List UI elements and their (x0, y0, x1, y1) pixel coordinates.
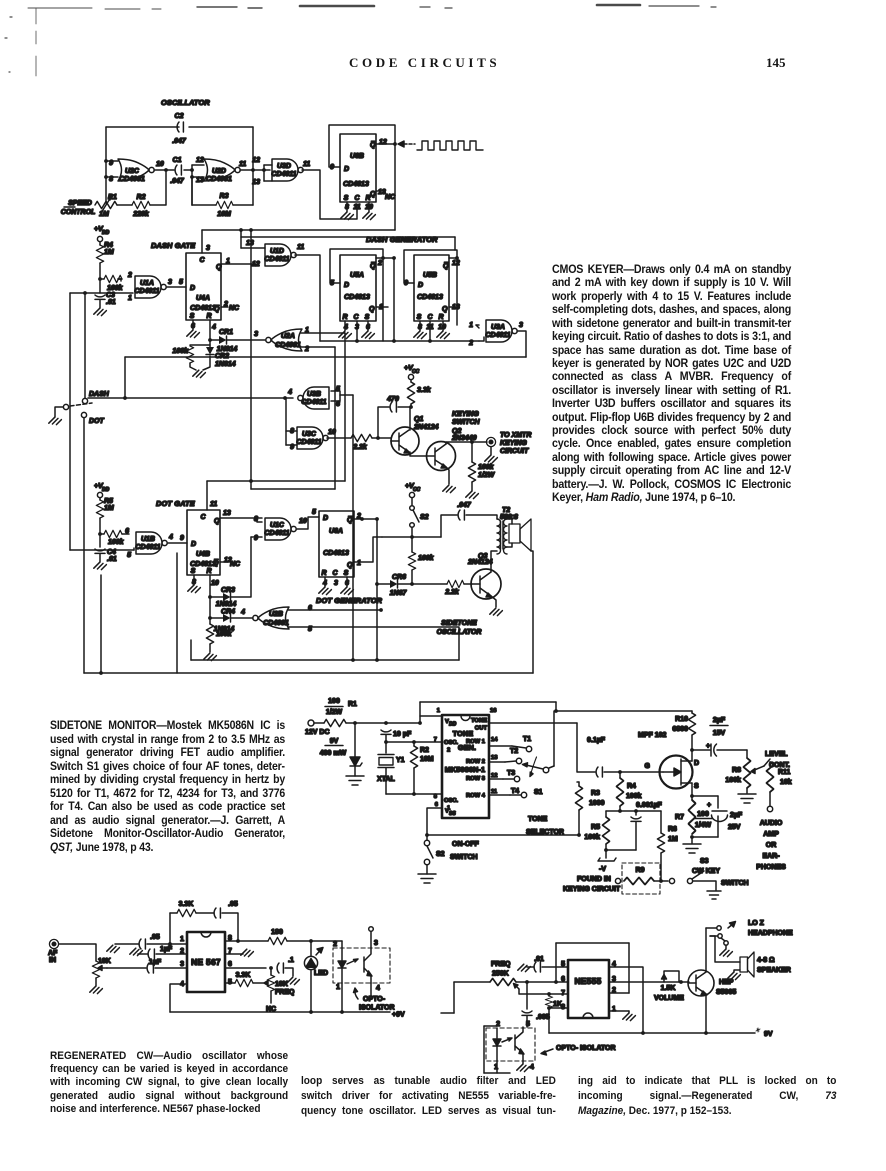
svg-text:PHONES: PHONES (756, 864, 786, 871)
svg-text:CD4013: CD4013 (190, 305, 216, 312)
transistor MPF102 JFET (660, 756, 693, 789)
svg-text:AMP: AMP (763, 831, 779, 838)
svg-text:OUT: OUT (475, 726, 488, 732)
svg-text:CD4013: CD4013 (323, 550, 349, 557)
svg-text:10K: 10K (275, 981, 288, 988)
svg-text:C: C (332, 570, 338, 577)
wire to 1uF pin2 (138, 953, 148, 955)
resistor R8 100k level pot (743, 758, 750, 788)
wire pin1 stub (420, 715, 442, 717)
svg-text:NE555: NE555 (574, 976, 601, 986)
junction (104, 159, 108, 163)
svg-text:500:8: 500:8 (500, 514, 518, 521)
svg-text:S1: S1 (534, 789, 543, 796)
svg-text:1: 1 (336, 984, 340, 991)
text block REGENERATED CW col 3 (578, 1074, 836, 1120)
transformer T2 500:8 (497, 507, 518, 554)
svg-text:CD4011: CD4011 (485, 332, 510, 339)
wire R11 down (769, 792, 771, 806)
svg-text:U3D: U3D (277, 163, 291, 170)
svg-text:100k: 100k (418, 555, 435, 562)
ground zener (346, 776, 364, 785)
wire node to 100k (411, 537, 413, 552)
svg-text:9V: 9V (330, 738, 339, 745)
svg-text:DD: DD (102, 487, 110, 493)
wire U5A Qbar out (376, 257, 383, 259)
wire source node (692, 795, 718, 797)
potentiometer FREQ 250K (490, 978, 519, 989)
wire U5A D loop (330, 249, 383, 283)
junction (554, 709, 558, 713)
svg-text:Q1: Q1 (414, 416, 423, 423)
wire R3 left riser (191, 177, 193, 205)
wire dash clock line (320, 340, 479, 342)
resistor 100k dot gate (206, 624, 213, 644)
svg-text:U2B: U2B (269, 611, 283, 618)
junction (425, 833, 429, 837)
junction (604, 848, 608, 852)
wire R6 bottom (660, 853, 662, 881)
ground R7 (683, 844, 701, 853)
svg-text:3.3K: 3.3K (236, 972, 251, 979)
svg-text:3: 3 (254, 331, 258, 338)
wire U3A pin1 stub (476, 324, 479, 326)
resistor R5 100k (602, 817, 609, 844)
wire stub (133, 548, 135, 550)
svg-text:CIRCUIT: CIRCUIT (500, 448, 529, 455)
resistor R1 1M speed control pot (95, 194, 117, 218)
ground (204, 653, 217, 660)
wire rotor link (549, 766, 554, 768)
wire R7 bottom (691, 837, 693, 843)
svg-text:4-8 Ω: 4-8 Ω (757, 957, 775, 964)
wire R4 to node (99, 263, 101, 279)
junction (262, 168, 266, 172)
capacitor C4 .01 (95, 549, 105, 553)
svg-text:0.001µF: 0.001µF (636, 802, 663, 809)
text block SIDETONE MONITOR (50, 719, 285, 854)
svg-text:12: 12 (452, 260, 460, 267)
svg-text:LO Z: LO Z (748, 920, 765, 927)
scan mark vertical fold line left (35, 8, 37, 76)
wire CR1 to U2A output (227, 339, 265, 341)
svg-text:4: 4 (530, 1064, 534, 1071)
svg-text:R2: R2 (137, 194, 146, 201)
svg-text:ON-OFF: ON-OFF (452, 841, 480, 848)
svg-text:KEYING: KEYING (500, 440, 527, 447)
wire cap bottom (635, 822, 637, 850)
wire U6A R to ground (324, 577, 326, 587)
wire U6A Q to enable (354, 537, 382, 562)
svg-text:3.3K: 3.3K (179, 901, 194, 908)
wire enable to node (382, 536, 412, 538)
svg-text:U1A: U1A (140, 280, 154, 287)
IC MK5086N-1 tone generator (442, 715, 489, 818)
svg-text:8: 8 (109, 176, 113, 183)
op-amp U2B (NOR gate U2B CD4001) (253, 607, 289, 629)
svg-text:U1C: U1C (270, 522, 285, 529)
ground S2 (418, 874, 436, 883)
diode CR1 1N914 (219, 336, 227, 344)
wire U4A R pin down (209, 320, 211, 340)
junction (641, 1031, 645, 1035)
wire Q3 collector to T2 (491, 551, 497, 572)
wire U5A C clock (356, 321, 358, 341)
svg-text:C: C (200, 514, 206, 521)
transistor opto NPN (364, 948, 372, 983)
svg-text:10: 10 (211, 580, 219, 587)
svg-text:CD4001: CD4001 (263, 620, 289, 627)
svg-text:Q̅: Q̅ (370, 141, 376, 149)
svg-text:12: 12 (196, 157, 204, 164)
wire inner rail corner (190, 640, 192, 660)
junction (384, 721, 388, 725)
svg-text:5: 5 (127, 552, 131, 559)
junction (659, 879, 663, 883)
svg-text:R1: R1 (348, 701, 357, 708)
wire to R8 (746, 750, 748, 758)
headphone jack (710, 922, 736, 950)
svg-text:HEP: HEP (719, 979, 734, 986)
svg-text:D: D (344, 282, 349, 289)
svg-text:CD4011: CD4011 (271, 171, 296, 178)
svg-text:S: S (344, 195, 349, 202)
wire collector up (705, 928, 707, 972)
wire C4 to ground (99, 554, 101, 562)
wire U2C pin9 stub (106, 160, 118, 162)
wire pot top (270, 968, 272, 971)
svg-text:3: 3 (206, 245, 210, 252)
svg-text:R3: R3 (591, 790, 600, 797)
wire U3B-U3C link (285, 398, 287, 445)
svg-text:400 mW: 400 mW (320, 750, 347, 757)
junction (208, 616, 212, 620)
wire speed control dash (64, 206, 75, 208)
svg-text:8: 8 (434, 794, 438, 800)
svg-text:CD4011: CD4011 (264, 530, 289, 537)
svg-text:.047: .047 (170, 178, 185, 185)
wire U3D pin12 stub (264, 164, 272, 166)
flip-flop U5B CD4013 (414, 255, 449, 321)
svg-text:S3: S3 (700, 858, 709, 865)
wire 1K to rail (548, 1008, 550, 1033)
svg-text:R9: R9 (636, 867, 645, 874)
wire VDD rail (420, 701, 556, 703)
wire U4B Qbar NC stub (220, 561, 228, 563)
switch dash contact (82, 398, 87, 403)
ground (94, 562, 107, 569)
op-amp U1D (NAND gate U1D CD4011) (265, 244, 296, 266)
svg-text:100k: 100k (725, 777, 741, 784)
wire 180 right (287, 940, 342, 942)
op-amp U1A (NAND gate U1A CD4011) (135, 276, 166, 298)
wire long dash line (125, 356, 526, 358)
svg-text:OSC.: OSC. (444, 798, 459, 804)
svg-text:100: 100 (697, 811, 709, 818)
junction (375, 517, 379, 521)
svg-text:VOLUME: VOLUME (654, 995, 684, 1002)
svg-text:1: 1 (226, 258, 230, 265)
wire U6A Qbar down to CR6 (376, 519, 378, 584)
svg-text:250K: 250K (492, 971, 509, 978)
wire tone out (489, 722, 577, 724)
wire R3 top link (578, 782, 580, 786)
wire U1D output down (295, 255, 320, 341)
resistor 3.3k (407, 382, 414, 404)
ground (187, 330, 200, 337)
svg-text:.1: .1 (288, 957, 294, 964)
svg-text:DOT GATE: DOT GATE (156, 499, 196, 508)
svg-text:Q: Q (442, 306, 448, 313)
wire R10 to drain (691, 735, 693, 750)
junction (269, 966, 273, 970)
svg-text:OSC.: OSC. (444, 740, 459, 746)
op-amp U3C (NAND gate U3C CD4011) (297, 427, 328, 449)
wire to CR6 (379, 583, 390, 585)
wire left riser (453, 982, 455, 1013)
wire pin4 down (170, 984, 187, 1012)
svg-text:U2A: U2A (281, 333, 295, 340)
switch S2 contact top (410, 506, 415, 511)
ground (414, 331, 427, 338)
svg-text:U4B: U4B (196, 551, 210, 558)
svg-text:10: 10 (328, 429, 336, 436)
wire VDD to R4 (99, 242, 101, 245)
svg-text:CR3: CR3 (221, 587, 235, 594)
svg-text:R5: R5 (591, 824, 600, 831)
wire U1C pin8 riser (257, 517, 262, 519)
svg-text:1µF: 1µF (160, 946, 173, 953)
opto-isolator U2 dashed box (333, 948, 390, 983)
svg-text:7: 7 (434, 737, 437, 743)
resistor R9 in dashed box (615, 863, 660, 894)
arrow opto2 coupling (502, 1038, 512, 1042)
svg-text:U5B: U5B (423, 272, 437, 279)
svg-text:1µF: 1µF (149, 959, 162, 966)
wire dash vertical (84, 293, 86, 398)
diode opto LED (338, 948, 346, 983)
junction (309, 1010, 313, 1014)
svg-text:KEYING: KEYING (452, 411, 479, 418)
resistor R1 100 1/2W (324, 698, 357, 727)
wire U6B R pin to ground (368, 202, 370, 212)
wire R5 top (605, 811, 607, 817)
wire U2A pin2 (301, 346, 335, 348)
svg-text:NC: NC (266, 1006, 276, 1013)
svg-text:12: 12 (491, 773, 497, 779)
wire U6B Q-bar output pin 12 (376, 143, 395, 145)
wire 100k to ground (209, 644, 211, 652)
junction (392, 256, 396, 260)
wire U5B S to ground (419, 321, 421, 331)
switch S2 on-off (424, 835, 444, 874)
terminal +VDD dot (97, 492, 102, 497)
svg-text:R6: R6 (668, 826, 677, 833)
wire CR4 to U2B output (231, 617, 253, 619)
resistor 3.3K freq (235, 979, 253, 986)
terminal audio out (767, 806, 772, 811)
svg-text:6: 6 (435, 802, 439, 808)
diode zener 9V (350, 723, 362, 776)
junction (236, 939, 240, 943)
svg-text:4: 4 (287, 389, 292, 396)
junction (618, 770, 622, 774)
resistor R6 1M (657, 833, 664, 853)
capacitor .005 (522, 1011, 532, 1015)
resistor R3 10M (216, 201, 233, 208)
svg-text:1N914: 1N914 (215, 361, 236, 368)
wire opto pin2 (341, 941, 343, 948)
terminal 12VDC input (308, 720, 314, 726)
svg-text:R: R (206, 568, 211, 575)
junction (409, 405, 413, 409)
svg-text:CD4011: CD4011 (301, 399, 326, 406)
svg-text:.047: .047 (457, 502, 472, 509)
wire node to 2.2k (412, 583, 447, 585)
diode CR3 1N914 (223, 593, 231, 601)
svg-text:11: 11 (210, 501, 217, 508)
wire U5A Q stub (376, 306, 388, 308)
ground opto2 (517, 1064, 530, 1071)
svg-text:13: 13 (223, 510, 231, 517)
opto-isolator U3 dashed box (486, 1028, 535, 1061)
junction (375, 658, 379, 662)
wire bias bus (606, 810, 661, 812)
wire osc2 line (386, 741, 442, 743)
svg-text:R: R (438, 314, 443, 321)
ground (437, 331, 450, 338)
svg-text:Q̅: Q̅ (443, 262, 449, 270)
wire U6A Qbar out (354, 518, 377, 520)
svg-text:R8: R8 (732, 767, 741, 774)
junction (83, 291, 87, 295)
junction (392, 339, 396, 343)
wire U5B D loop (404, 250, 457, 283)
svg-text:7: 7 (561, 990, 565, 997)
transistor opto2 NPN (515, 1028, 524, 1061)
junction (679, 980, 683, 984)
svg-text:CD4001: CD4001 (206, 176, 232, 183)
svg-text:14: 14 (491, 737, 498, 743)
ground S3 (707, 891, 721, 899)
wire U1B out to U4B D (168, 542, 187, 544)
junction (99, 671, 103, 675)
svg-text:MK5086N-1: MK5086N-1 (445, 765, 486, 774)
wire U4B Q to U1C pin8 (220, 517, 257, 519)
svg-text:Q2: Q2 (452, 428, 461, 435)
wire osc1 line (386, 793, 442, 795)
wire top loop right (222, 913, 238, 941)
wire 2.2k to Q3 base (464, 583, 472, 585)
junction (190, 175, 194, 179)
wire down to 100k dot (209, 618, 211, 624)
svg-text:12: 12 (252, 261, 260, 268)
svg-text:5: 5 (526, 1021, 530, 1028)
supply -V (598, 858, 616, 873)
wire pin1 out (609, 1010, 629, 1012)
wire U1A out to U4A D (167, 286, 186, 288)
wire opto pin1 down (341, 983, 343, 1012)
svg-text:D: D (323, 515, 328, 522)
wire S2 to node (411, 527, 413, 537)
switch S1 tone selector T3 (489, 770, 520, 782)
resistor 2.2k (351, 434, 372, 441)
svg-text:R2: R2 (420, 747, 429, 754)
transistor Q2 2N3440 (427, 442, 456, 485)
svg-text:180: 180 (271, 929, 283, 936)
ground (319, 587, 332, 594)
svg-text:1: 1 (180, 936, 184, 943)
svg-text:AUDIO: AUDIO (760, 820, 783, 827)
wire R7 top (691, 796, 693, 800)
wire clock bus vertical (250, 230, 252, 489)
wire pin1 gnd stub (628, 1011, 630, 1013)
wire crystal down (385, 768, 387, 794)
svg-text:Q̅: Q̅ (347, 516, 353, 524)
resistor 100k sidetone (408, 552, 415, 570)
svg-text:16: 16 (490, 708, 497, 714)
ground headphone (720, 949, 733, 956)
transistor Q1 2N4124 (391, 407, 434, 456)
wire .047 to T2 (466, 515, 497, 519)
svg-text:U2D: U2D (212, 168, 226, 175)
wire U5B Qbar out (449, 257, 457, 259)
wire opto pin4 down (370, 983, 372, 996)
ground (363, 212, 376, 219)
placeholder groups (5, 5, 716, 76)
svg-text:R: R (365, 195, 370, 202)
wire pot to pin6 (516, 981, 568, 983)
wire dash paddle line (88, 397, 285, 399)
ground (490, 608, 503, 615)
wire +9V rail ne567 (170, 1011, 390, 1013)
resistor 1K (545, 994, 562, 1008)
capacitor C3 .01 (95, 295, 105, 299)
svg-text:DD: DD (102, 230, 110, 236)
svg-text:2.2k: 2.2k (444, 589, 460, 596)
potentiometer 10K FREQ (264, 971, 295, 996)
capacitor 1uF pin2 (148, 949, 154, 959)
ground speaker (728, 972, 741, 979)
wire to -V (605, 850, 607, 858)
switch S1 tone selector T4 (489, 788, 527, 798)
ground (94, 308, 107, 315)
wire to R1 (314, 722, 324, 724)
switch S3 (687, 871, 716, 890)
svg-text:SWITCH: SWITCH (721, 880, 749, 887)
potentiometer 1.5K volume (654, 971, 684, 1002)
arrow opto coupling (347, 959, 358, 964)
svg-text:.01: .01 (107, 556, 117, 563)
diode CR4 1N914 (223, 614, 231, 622)
wire R5 bottom (605, 844, 607, 850)
wire R2 down (413, 768, 415, 794)
svg-text:10M: 10M (217, 211, 231, 218)
resistor 180 (268, 937, 287, 944)
svg-text:SS: SS (449, 811, 456, 817)
wire CR6 to node (398, 583, 412, 585)
junction (251, 168, 255, 172)
wire U6B S pin to ground (346, 202, 348, 212)
label +9V ne555 (756, 1028, 773, 1038)
wire U3C pin9 stub (286, 444, 297, 446)
wire +9V rail ne555 (549, 1032, 755, 1034)
wire tone out down (577, 723, 595, 772)
wire VSS bus right (427, 834, 579, 836)
junction (239, 228, 243, 232)
wire U5A R to ground (344, 321, 346, 331)
resistor R10 6800 (688, 713, 695, 735)
